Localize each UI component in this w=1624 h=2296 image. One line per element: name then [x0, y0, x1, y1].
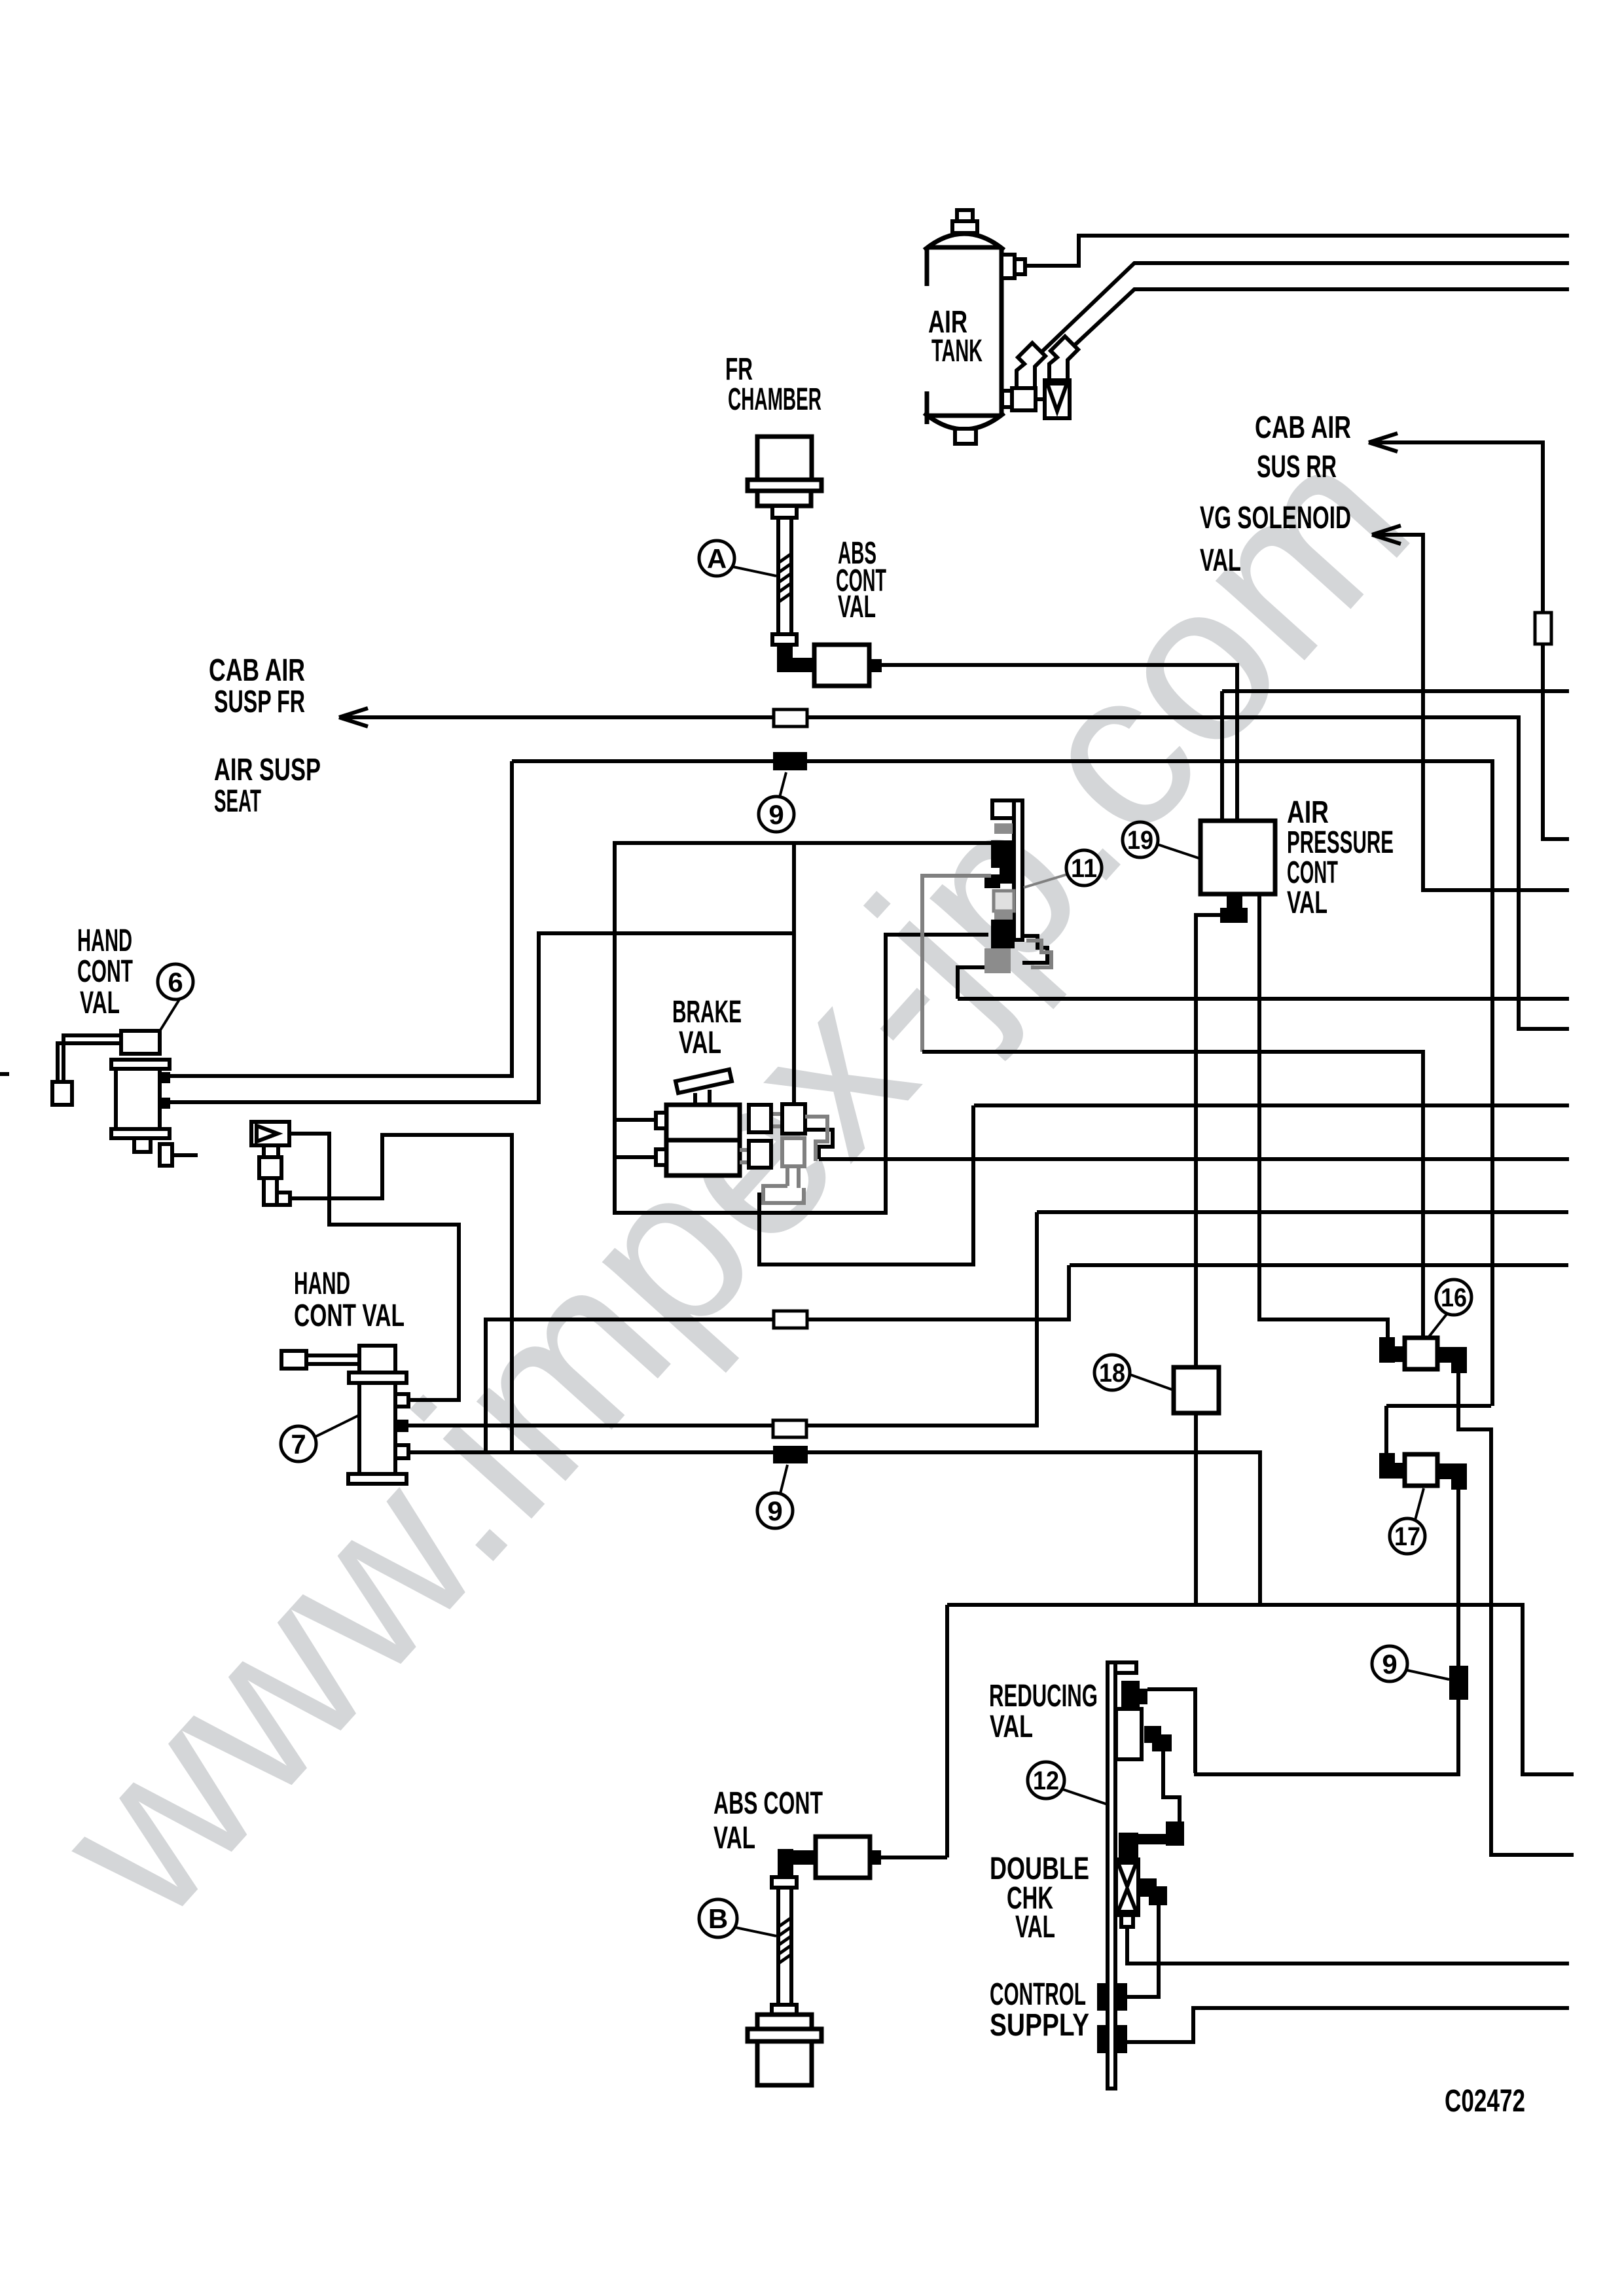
brake valve right ports upper row: [749, 1104, 805, 1134]
svg-text:VAL: VAL: [1015, 1910, 1055, 1945]
air tank bottom right union fitting: [1002, 388, 1045, 410]
wire valve6 bottom port to line 1425: [170, 933, 793, 1102]
RR chamber body bottom: [748, 2015, 821, 2085]
svg-text:SUSP FR: SUSP FR: [214, 685, 305, 719]
label HAND CONT VAL 7: [294, 1266, 405, 1333]
wire second feed into air pressure cont val: [1220, 691, 1224, 821]
svg-text:CONT: CONT: [77, 954, 133, 989]
svg-text:18: 18: [1099, 1359, 1125, 1388]
wire chk elbow down to control fitting line: [1127, 1905, 1159, 1997]
union connector on line 2016: [774, 1311, 807, 1328]
union connector on susp fr line: [774, 709, 807, 726]
reducing top fitting: [1121, 1681, 1147, 1710]
wire chk neck down and long line 3000: [1127, 1927, 1569, 1964]
hand cont val 7 body: [281, 1346, 408, 1484]
label AIR SUSP SEAT: [214, 753, 321, 819]
wire long line 1526: [958, 997, 1569, 1001]
wire long line from 1867 to right edge: [1222, 689, 1569, 693]
circle 9 right: [1372, 1646, 1449, 1681]
svg-text:BRAKE: BRAKE: [672, 995, 742, 1030]
air tank bottom fitting: [955, 429, 976, 444]
gray elbow under port D: [763, 1166, 804, 1203]
label CAB AIR SUS RR: [1255, 410, 1351, 484]
wire comp17 right port down through 9 fitting to reducing line: [1194, 1490, 1458, 1774]
wire tank port to top line: [1025, 236, 1569, 266]
label VG SOLENOID VAL: [1200, 501, 1351, 578]
wire vertical from box19 bottom: [1259, 894, 1388, 1337]
ABS cont val A body: [814, 645, 882, 686]
wire from elbow 19 to vertical 1827: [1196, 915, 1220, 1367]
wire vertical 1160 from elbow to line 1932: [759, 1105, 973, 1265]
svg-text:HAND: HAND: [77, 924, 132, 958]
wire riser 742 from line 2219 to line 2016: [486, 1265, 1069, 1452]
wire long line 1771: [819, 1157, 1569, 1161]
supply fitting on plate: [1097, 2025, 1127, 2053]
circle 7: [281, 1415, 359, 1462]
hand cont val 6 left pipe: [52, 1035, 121, 1105]
FR chamber body: [748, 437, 821, 518]
control fitting on plate: [1097, 1983, 1127, 2011]
fitting 9 connector on line 2219: [773, 1446, 808, 1463]
wire comp16 right port step down: [1458, 1373, 1574, 1855]
tank angled nozzle 2: [1049, 336, 1078, 380]
circle B: [699, 1899, 776, 1937]
fitting 9 connector on seat line: [773, 752, 807, 770]
wire long line 1607 to comp 16: [922, 1052, 1423, 1338]
wire valve6 top port to seat line: [170, 761, 512, 1076]
elbow fitting under hose A: [777, 645, 814, 672]
air tank body: [924, 234, 1004, 429]
label DOUBLE CHK VAL: [990, 1852, 1089, 1945]
brake valve right ports lower row: [740, 1138, 804, 1168]
label BRAKE VAL: [672, 995, 742, 1060]
edge tick left: [0, 1072, 9, 1076]
wire ABS B output to reducing enclosure: [881, 1856, 947, 1859]
wire valve7 bottom line 2219 to corner 1925: [408, 1452, 1260, 1605]
svg-text:A: A: [707, 543, 727, 574]
component 16 tee valve: [1379, 1337, 1467, 1373]
wire valve7 middle port long line to 1584: [408, 1212, 1037, 1426]
air tank right top port: [1001, 255, 1025, 278]
svg-text:AIR SUSP: AIR SUSP: [214, 753, 321, 787]
svg-text:CONTROL: CONTROL: [990, 1977, 1086, 2012]
wire comp16/17 link line 2148: [1386, 1406, 1491, 1453]
label CAB AIR SUSP FR: [209, 653, 305, 719]
valve 11 right bracket: [1022, 936, 1047, 963]
circle 18: [1094, 1355, 1174, 1390]
wire reducing elbow down to Z fitting: [1163, 1751, 1180, 1823]
wire check valve foot to valve7 bottom line: [290, 1135, 512, 1452]
valve 11 fittings: [984, 823, 1015, 973]
black elbow under box 19: [1220, 896, 1248, 923]
check valve at tank drain: [1045, 380, 1070, 418]
svg-text:19: 19: [1127, 826, 1153, 855]
svg-text:11: 11: [1071, 854, 1097, 883]
svg-text:VAL: VAL: [80, 986, 120, 1020]
check valve near valve 6: [251, 1122, 290, 1205]
svg-text:9: 9: [768, 799, 784, 830]
svg-text:VAL: VAL: [990, 1710, 1033, 1744]
reducing valve right elbow: [1144, 1726, 1172, 1751]
reducing valve plate 12: [1108, 1662, 1136, 2089]
wire reducing top fitting to line 2709: [1147, 1689, 1195, 1773]
double check valve body: [1116, 1859, 1138, 1927]
wire supply fitting to long line 3068: [1127, 2008, 1569, 2042]
union connector on sus rr drop: [1535, 613, 1551, 644]
svg-text:VAL: VAL: [679, 1026, 721, 1060]
label ABS CONT VAL top: [836, 536, 886, 624]
black staircase from port B to line 1771: [805, 1130, 833, 1159]
hand cont val 6 right ports: [160, 1072, 170, 1109]
gray bracket echo: [1026, 941, 1051, 967]
svg-text:SUPPLY: SUPPLY: [990, 2008, 1089, 2043]
wire VG SOLENOID VAL arrow line: [1372, 526, 1569, 890]
circle 9 middle: [757, 1465, 793, 1528]
label CONTROL SUPPLY: [990, 1977, 1089, 2043]
wire CAB AIR SUSP FR line with left arrow: [339, 708, 1569, 1029]
label FR CHAMBER: [725, 352, 821, 417]
circle 6: [158, 964, 193, 1032]
reducing valve body: [1116, 1709, 1142, 1759]
wire long line 1852 from 1584: [1037, 1210, 1568, 1214]
svg-text:B: B: [708, 1903, 728, 1934]
wire valve11 foot to long line 1526: [958, 967, 984, 999]
svg-text:9: 9: [767, 1496, 782, 1526]
brake valve enclosure left: [615, 843, 988, 1213]
svg-text:CHAMBER: CHAMBER: [728, 382, 821, 417]
wire CAB AIR SUS RR arrow line: [1369, 433, 1569, 839]
box 18: [1174, 1367, 1219, 1413]
svg-text:VAL: VAL: [838, 590, 876, 624]
wire long line 1933: [1070, 1263, 1568, 1267]
label AIR TANK: [928, 305, 983, 368]
valve 11 plate: [992, 800, 1022, 940]
svg-text:TANK: TANK: [931, 334, 983, 368]
wire AIR SUSP SEAT line: [512, 761, 1492, 1406]
wire check valve out to valve7 top port: [289, 1134, 459, 1400]
hand cont val 6 body: [111, 1031, 198, 1166]
reducing val enclosure left edge: [945, 1605, 949, 1857]
circle 9 top: [759, 772, 794, 832]
svg-text:VAL: VAL: [1287, 886, 1327, 920]
svg-text:VAL: VAL: [1200, 543, 1241, 578]
fitting 9 connector right: [1449, 1666, 1468, 1700]
circle 11: [1024, 850, 1102, 888]
union connector on line 2178: [773, 1420, 806, 1437]
circle 17: [1390, 1488, 1425, 1554]
svg-text:HAND: HAND: [294, 1266, 350, 1301]
Z fitting middle: [1119, 1821, 1184, 1858]
svg-text:CAB AIR: CAB AIR: [1255, 410, 1351, 445]
svg-text:6: 6: [168, 967, 183, 997]
wire diagonal from nozzle1 to second line: [1041, 263, 1569, 352]
svg-text:SEAT: SEAT: [214, 784, 261, 819]
svg-text:16: 16: [1441, 1283, 1467, 1312]
air tank top fitting: [952, 210, 977, 233]
circle 16: [1427, 1280, 1471, 1339]
hose A (hatched): [772, 518, 797, 645]
svg-text:VG SOLENOID: VG SOLENOID: [1200, 501, 1351, 535]
brake valve handle: [676, 1069, 732, 1105]
svg-text:C02472: C02472: [1445, 2084, 1525, 2119]
tank angled nozzle 1: [1017, 343, 1045, 388]
air pressure cont val box 19: [1200, 821, 1275, 894]
gray staircase echo: [805, 1117, 827, 1161]
svg-text:CONT VAL: CONT VAL: [294, 1299, 405, 1333]
label ABS CONT VAL bottom: [713, 1786, 823, 1856]
svg-text:12: 12: [1033, 1767, 1059, 1795]
wire brake valve left port lines: [615, 1120, 656, 1157]
wire vertical below box 18 to reducing enclosure: [1194, 1413, 1198, 1605]
circle 19: [1123, 822, 1200, 859]
hose B (hatched): [772, 1877, 797, 2015]
svg-text:VAL: VAL: [713, 1821, 755, 1856]
svg-text:CAB AIR: CAB AIR: [209, 653, 305, 688]
svg-text:REDUCING: REDUCING: [989, 1679, 1098, 1713]
wire long line 1689: [974, 1103, 1569, 1107]
wire line 1288 continues to valve 11: [794, 841, 991, 845]
label AIR PRESSURE CONT VAL: [1287, 795, 1394, 920]
wire diagonal from nozzle2 to third line: [1074, 289, 1569, 346]
wire ABS A output to air pressure cont val: [882, 665, 1237, 821]
ABS cont val B body: [778, 1837, 881, 1878]
circle A: [699, 541, 776, 576]
label HAND CONT VAL 6: [77, 924, 133, 1020]
svg-text:ABS CONT: ABS CONT: [713, 1786, 823, 1821]
component 17 tee valve: [1379, 1453, 1467, 1490]
wire line 2452 with drop at 2326: [947, 1605, 1574, 1774]
wire gray feed to valve 11 mid port: [922, 876, 991, 1052]
circle 12: [1028, 1762, 1108, 1804]
svg-text:SUS RR: SUS RR: [1257, 450, 1337, 484]
brake valve body: [656, 1105, 740, 1175]
label REDUCING VAL: [989, 1679, 1098, 1744]
svg-text:7: 7: [291, 1429, 306, 1460]
double check valve right elbow: [1138, 1878, 1167, 1905]
svg-text:9: 9: [1382, 1649, 1397, 1679]
svg-text:17: 17: [1394, 1522, 1420, 1551]
